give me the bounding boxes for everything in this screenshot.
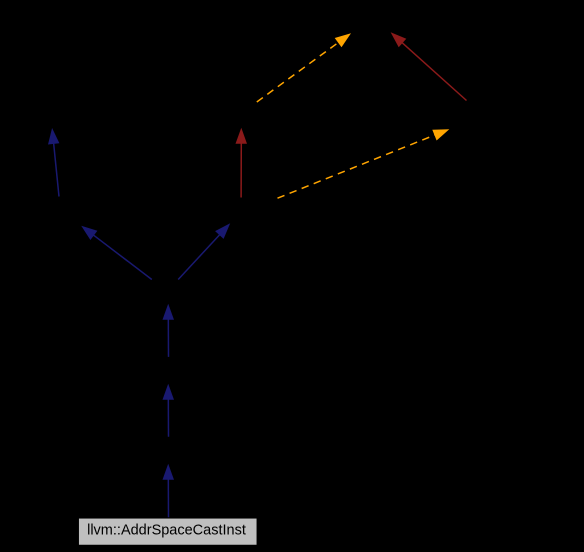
orange dashed template relation arrow 1	[257, 33, 351, 102]
blue inheritance arrow Value to User	[48, 128, 59, 197]
orange dashed template relation arrow 2	[278, 129, 450, 198]
blue inheritance arrow left diagonal User to Instruction	[81, 226, 152, 280]
svg-text:llvm::AddrSpaceCastInst: llvm::AddrSpaceCastInst	[87, 522, 246, 538]
blue inheritance arrow Instruction to UnaryInstruction	[163, 304, 175, 357]
blue inheritance arrow right diagonal ilist_node to Instruction	[178, 223, 230, 279]
dark red private inheritance arrow diagonal	[391, 32, 467, 100]
node box llvm::AddrSpaceCastInst (current node, grey)	[78, 518, 257, 546]
blue inheritance arrow UnaryInstruction to CastInst	[163, 384, 175, 437]
blue inheritance arrow CastInst to AddrSpaceCastInst	[163, 464, 175, 519]
dark red private inheritance arrow vertical	[236, 128, 248, 198]
